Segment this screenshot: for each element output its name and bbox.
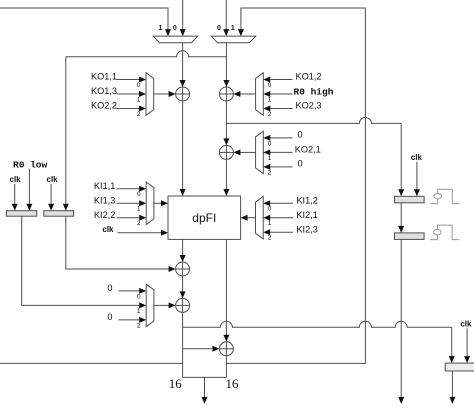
wire clk to register RG3 <box>414 162 420 197</box>
label KI2,1 <box>296 210 317 220</box>
svg-text:clk: clk <box>460 319 472 328</box>
svg-text:KI2,1: KI2,1 <box>296 210 317 220</box>
label KO1,2 <box>296 72 322 82</box>
svg-text:1: 1 <box>268 155 272 162</box>
mux M1 (top left 2:1 mux) <box>153 36 198 43</box>
mux U6 KI select (right) <box>256 196 264 239</box>
label KI1,2 <box>296 195 317 205</box>
svg-text:2: 2 <box>137 220 141 227</box>
svg-text:1: 1 <box>158 25 162 32</box>
svg-text:0: 0 <box>137 191 141 198</box>
wire KO1,3 to mux U1 pin 1 <box>117 91 147 97</box>
label KI1,1 <box>94 181 115 191</box>
register RG1 (R0 low) <box>6 211 36 217</box>
clock waveform symbol for RG3 <box>431 189 460 203</box>
svg-text:0: 0 <box>298 129 303 139</box>
wire mux U7 output to XOR X5 <box>154 302 176 308</box>
svg-text:KI1,2: KI1,2 <box>296 195 317 205</box>
wire mux U1 output to XOR X1 <box>154 91 176 97</box>
wire dpFI bottom left output to XOR X4 <box>180 239 186 262</box>
wire 0 to mux U7 pin 0 <box>119 288 147 294</box>
svg-text:clk: clk <box>10 175 22 184</box>
xor gate X6 <box>219 342 233 356</box>
svg-text:2: 2 <box>137 322 141 329</box>
pin label 1 of mux U2 <box>268 96 272 103</box>
svg-text:2: 2 <box>137 111 141 118</box>
svg-text:KO1,2: KO1,2 <box>296 72 322 82</box>
mux U7 (0 / R0 low reg / 0) <box>146 284 154 327</box>
pin label 1 of mux U7 <box>137 308 141 315</box>
wire XOR X6 output to node F and combiner <box>225 356 227 378</box>
wire R0 low to register RG1 data input <box>26 169 32 211</box>
pin label 2 of mux U6 <box>268 235 272 242</box>
pin label 1 of mux M1 <box>158 25 162 32</box>
pin label 0 of mux M2 <box>217 25 221 32</box>
block U4 dpFI <box>168 196 241 239</box>
register RG3 <box>395 196 425 203</box>
svg-text:1: 1 <box>137 308 141 315</box>
svg-text:0: 0 <box>107 312 112 322</box>
label clk for register RG3 <box>411 153 423 162</box>
pin label 0 of mux U5 <box>137 191 141 198</box>
wire KO2,3 to mux U2 pin 2 <box>263 106 292 112</box>
pin label 0 of mux U1 <box>137 82 141 89</box>
wire KO1,2 to mux U2 pin 0 <box>263 77 292 83</box>
wire mux U3 output to XOR X3 <box>233 149 255 155</box>
svg-text:16: 16 <box>226 376 240 391</box>
svg-text:clk: clk <box>47 175 59 184</box>
mux U5 KI select (left) <box>146 182 154 225</box>
wire KI1,1 to mux U5 pin 0 <box>117 186 147 192</box>
svg-text:clk: clk <box>411 153 423 162</box>
wire clk to register RG5 <box>464 328 470 363</box>
wire KI2,1 to mux U6 pin 1 <box>263 215 293 221</box>
svg-text:16: 16 <box>169 376 183 391</box>
wire left feedback input to mux M1 pin 1 <box>0 8 171 36</box>
svg-text:2: 2 <box>268 111 272 118</box>
label KI2,3 <box>296 224 317 234</box>
wire 0 to mux U3 pin 0 <box>263 135 292 141</box>
wire mux U2 output to XOR X2 <box>233 91 255 97</box>
pin label 2 of mux U7 <box>137 322 141 329</box>
svg-text:0: 0 <box>268 82 272 89</box>
wire R0 high to mux U2 pin 1 <box>263 91 292 97</box>
svg-text:0: 0 <box>137 293 141 300</box>
label clk for register RG1 <box>10 175 22 184</box>
xor gate X5 <box>176 298 190 312</box>
svg-text:KI1,3: KI1,3 <box>94 196 115 206</box>
wire mux M2 output to XOR X2 <box>223 43 229 87</box>
svg-text:KO2,2: KO2,2 <box>91 101 117 111</box>
svg-text:1: 1 <box>137 206 141 213</box>
pin label 2 of mux U5 <box>137 220 141 227</box>
pin label 1 of mux U5 <box>137 206 141 213</box>
wire mux U5 output to dpFI left input <box>154 200 168 206</box>
mux U1 KO select (left) <box>146 73 154 116</box>
wire KI2,3 to mux U6 pin 2 <box>263 229 293 235</box>
svg-text:0: 0 <box>173 25 177 32</box>
svg-text:0: 0 <box>268 140 272 147</box>
svg-text:2: 2 <box>268 235 272 242</box>
label R0 high <box>294 86 334 97</box>
svg-text:R0 low: R0 low <box>13 159 48 170</box>
bus width label 16 right <box>226 376 240 391</box>
pin label 2 of mux U3 <box>268 169 272 176</box>
label clk for register RG5 <box>460 319 472 328</box>
svg-text:1: 1 <box>137 96 141 103</box>
xor gate X3 <box>219 145 233 159</box>
label KI1,3 <box>94 196 115 206</box>
svg-text:0: 0 <box>268 206 272 213</box>
xor gate X4 <box>176 262 190 276</box>
wire node D branch to register RG5 data input (hops over three verticals) <box>183 321 455 363</box>
label R0 low <box>13 159 48 170</box>
wire dpFI bottom right output to XOR X6 <box>223 239 229 341</box>
wire right feedback loop from node F to mux M2 pin 1 <box>226 8 365 363</box>
mux U3 KO2,1 select <box>256 131 264 174</box>
wire register RG5 output <box>449 371 455 404</box>
svg-text:KO2,1: KO2,1 <box>295 145 321 155</box>
value label 0 on mux U7 pin 0 <box>107 283 112 293</box>
clock waveform symbol for RG4 <box>430 225 459 240</box>
svg-text:dpFI: dpFI <box>192 211 216 225</box>
value label 0 on mux U3 pin 0 <box>298 129 303 139</box>
svg-text:KO2,3: KO2,3 <box>296 101 322 111</box>
svg-text:0: 0 <box>137 82 141 89</box>
wire register RG2 output to XOR X4 <box>66 216 176 272</box>
label KO2,3 <box>296 101 322 111</box>
wire KI1,2 to mux U6 pin 0 <box>263 200 293 206</box>
wire XOR X3 output to dpFI top right input <box>223 159 229 196</box>
wire 0 to mux U3 pin 2 <box>263 164 292 170</box>
value label 0 on mux U7 pin 2 <box>107 312 112 322</box>
svg-text:KO1,3: KO1,3 <box>91 86 117 96</box>
wire node C branch to register RG3 data input (hops over feedback line) <box>226 117 404 196</box>
wire XOR X1 output to dpFI top left input <box>180 101 186 196</box>
wire register RG3 output to register RG4 <box>398 203 404 233</box>
label KO2,1 <box>295 145 321 155</box>
label clk for register RG2 <box>47 175 59 184</box>
svg-text:clk: clk <box>102 225 114 234</box>
wire top input to mux M2 pin 0 <box>223 0 229 36</box>
wire clk to dpFI left input <box>118 230 169 236</box>
pin label 1 of mux U6 <box>268 220 272 227</box>
pin label 0 of mux M1 <box>173 25 177 32</box>
wire XOR X4 output to XOR X5 <box>180 276 186 298</box>
wire XOR X5 output down to node D and node E <box>182 312 184 377</box>
svg-text:1: 1 <box>231 25 235 32</box>
wire top input to mux M1 pin 0 <box>180 0 186 36</box>
register RG2 <box>44 211 74 217</box>
xor gate X1 <box>176 87 190 101</box>
wire register RG1 output to mux U7 pin 1 <box>22 216 147 308</box>
wire KI1,3 to mux U5 pin 1 <box>117 200 147 206</box>
svg-text:2: 2 <box>268 169 272 176</box>
wire node E branch to XOR X6 <box>183 346 220 352</box>
wire register RG4 output to bottom <box>398 239 404 404</box>
pin label 1 of mux M2 <box>231 25 235 32</box>
svg-text:0: 0 <box>298 158 303 168</box>
label KO1,3 <box>91 86 117 96</box>
pin label 2 of mux U1 <box>137 111 141 118</box>
register RG4 <box>395 233 425 240</box>
wire KO2,2 to mux U1 pin 2 <box>117 106 147 112</box>
wire 0 to mux U7 pin 2 <box>119 317 147 323</box>
mux U2 KO select (right) <box>256 73 264 116</box>
pin label 0 of mux U2 <box>268 82 272 89</box>
value label 0 on mux U3 pin 2 <box>298 158 303 168</box>
register RG5 <box>445 363 474 371</box>
svg-text:0: 0 <box>107 283 112 293</box>
svg-text:R0 high: R0 high <box>294 86 334 97</box>
wire XOR X2 output to XOR X3 with branch node C <box>223 101 229 145</box>
wire KI2,2 to mux U5 pin 2 <box>117 215 147 221</box>
wire 32-bit output <box>202 377 208 404</box>
pin label 0 of mux U3 <box>268 140 272 147</box>
wire clk to register RG1 <box>12 184 18 211</box>
wire KO1,1 to mux U1 pin 0 <box>117 77 147 83</box>
wire clk to register RG2 <box>48 184 54 211</box>
label KO2,2 <box>91 101 117 111</box>
label clk for dpFI <box>102 225 114 234</box>
svg-text:KI2,3: KI2,3 <box>296 224 317 234</box>
label KI2,2 <box>94 210 115 220</box>
bus width label 16 left <box>169 376 183 391</box>
xor gate X2 <box>219 87 233 101</box>
wire left feedback at node E <box>0 362 183 364</box>
svg-text:1: 1 <box>268 96 272 103</box>
pin label 1 of mux U3 <box>268 155 272 162</box>
pin label 1 of mux U1 <box>137 96 141 103</box>
svg-text:1: 1 <box>268 220 272 227</box>
label KO1,1 <box>91 72 117 82</box>
mux M2 (top right 2:1 mux) <box>211 36 256 43</box>
wire mux M1 output to XOR X1 <box>180 43 186 87</box>
wire combiner joining the two 16-bit halves <box>183 376 227 378</box>
pin label 2 of mux U2 <box>268 111 272 118</box>
svg-text:0: 0 <box>217 25 221 32</box>
pin label 0 of mux U7 <box>137 293 141 300</box>
wire node B branch from mux M2 output to register RG2 data (hops over X1 line) <box>63 51 227 211</box>
pin label 0 of mux U6 <box>268 206 272 213</box>
svg-text:KO1,1: KO1,1 <box>91 72 117 82</box>
wire KO2,1 to mux U3 pin 1 <box>263 149 292 155</box>
svg-text:KI2,2: KI2,2 <box>94 210 115 220</box>
wire mux U6 output to dpFI right input <box>241 215 256 221</box>
svg-text:KI1,1: KI1,1 <box>94 181 115 191</box>
